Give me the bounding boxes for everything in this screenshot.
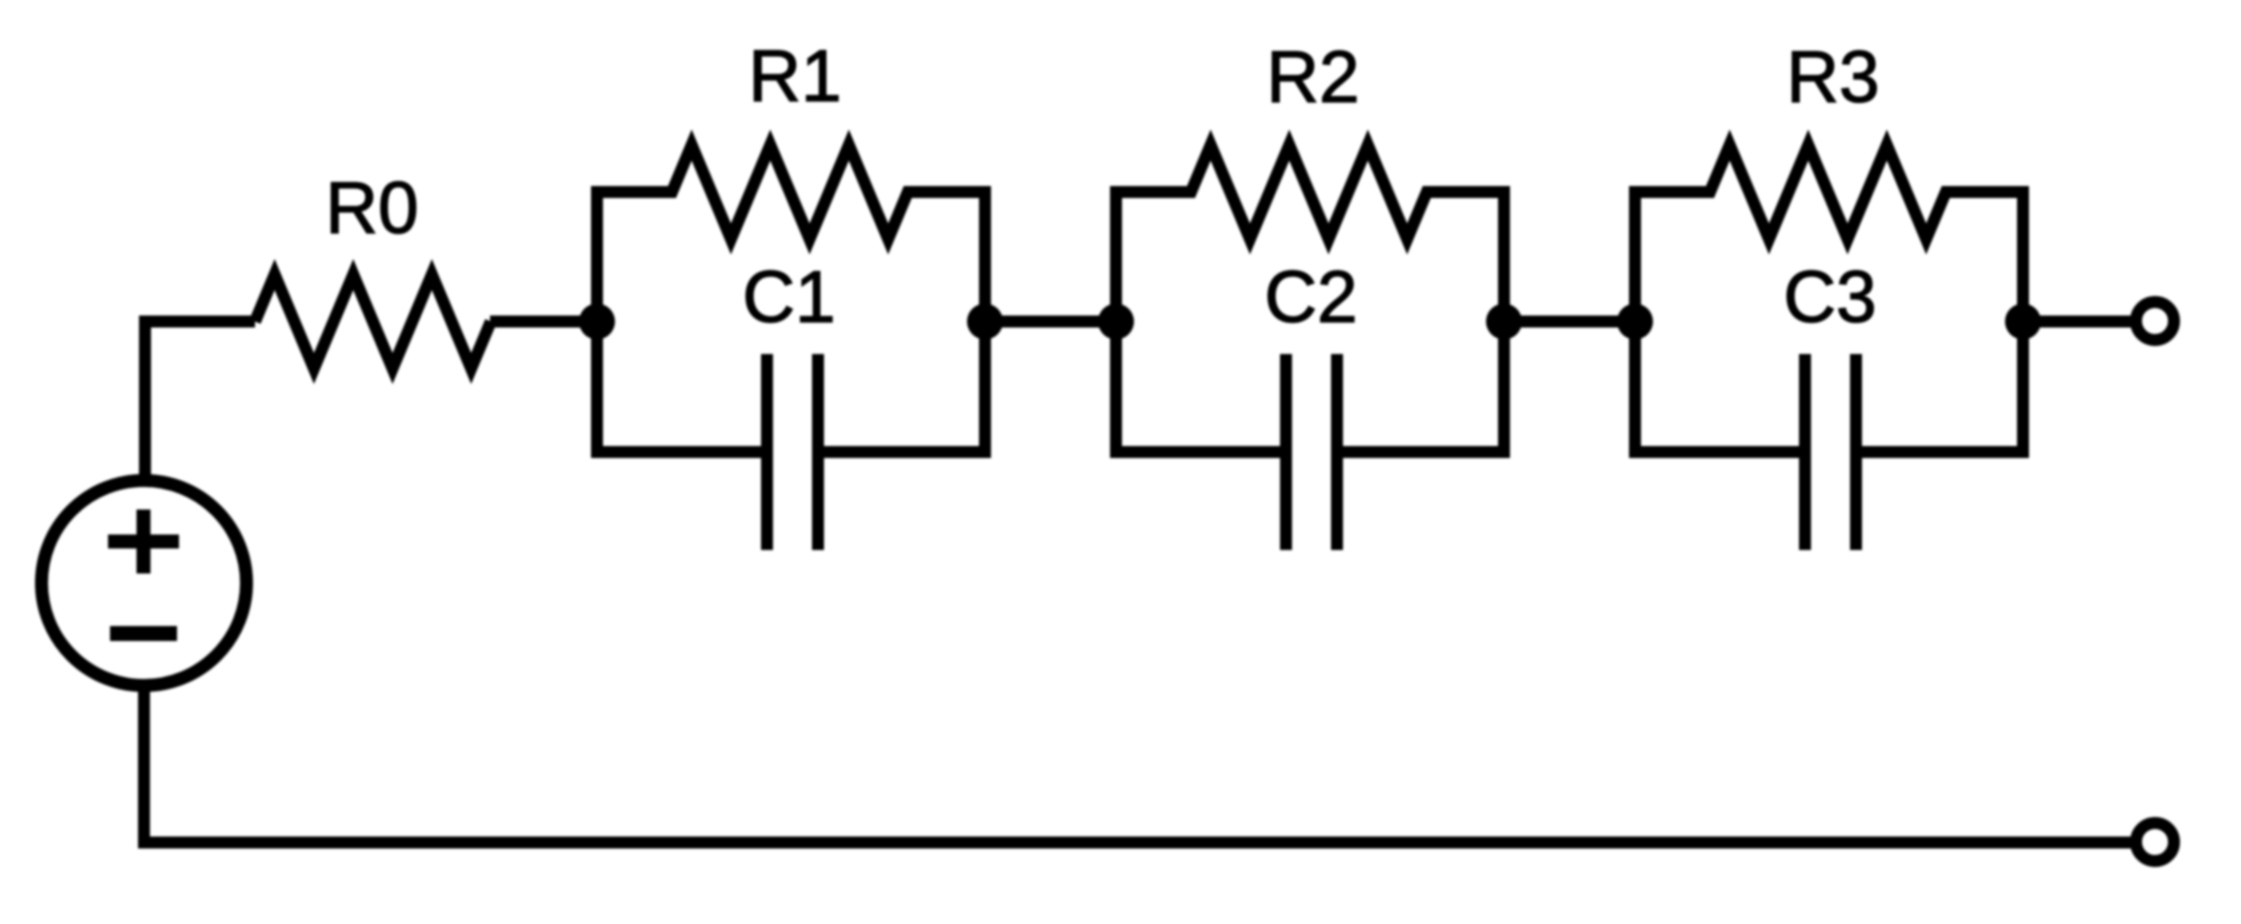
node dot: block1 right — [967, 304, 1003, 340]
svg-text:R0: R0 — [325, 168, 418, 249]
svg-text:R2: R2 — [1266, 37, 1359, 118]
capacitor C1 plates — [761, 354, 773, 550]
RC block 1 outline (R1 zigzag in top branch) — [597, 145, 985, 452]
node dot: R0/block1 junction — [579, 304, 615, 340]
RC block 2 outline (R2 zigzag in top branch) — [1116, 145, 1504, 452]
+ symbol of source — [108, 510, 179, 574]
output terminal + (open circle) — [2136, 302, 2174, 340]
wire: R0 to node A — [490, 316, 597, 328]
node dot: block3 right / output — [2005, 304, 2041, 340]
capacitor C3 plates — [1799, 354, 1811, 550]
svg-text:C3: C3 — [1783, 257, 1876, 338]
svg-text:C1: C1 — [742, 257, 835, 338]
svg-text:C2: C2 — [1264, 257, 1357, 338]
wire: top-left corner from R0 left end down to source top — [145, 322, 255, 482]
svg-text:R3: R3 — [1786, 37, 1879, 118]
resistor R0 — [255, 275, 491, 369]
RC block 3 outline (R3 zigzag in top branch) — [1635, 145, 2023, 452]
wire: block2 to block3 — [1504, 316, 1635, 328]
- symbol of source — [110, 626, 177, 641]
wire: block3 to + output terminal — [2023, 316, 2136, 328]
voltage source V1 circle — [42, 481, 247, 686]
svg-text:R1: R1 — [748, 36, 841, 117]
output terminal - (open circle) — [2136, 823, 2174, 861]
node dot: block2 right — [1486, 304, 1522, 340]
node dot: block2 left — [1098, 304, 1134, 340]
wire: block1 to block2 — [985, 316, 1116, 328]
wire: source bottom to bottom rail and - output terminal — [144, 685, 2136, 843]
capacitor C2 plates — [1280, 354, 1292, 550]
node dot: block3 left — [1617, 304, 1653, 340]
